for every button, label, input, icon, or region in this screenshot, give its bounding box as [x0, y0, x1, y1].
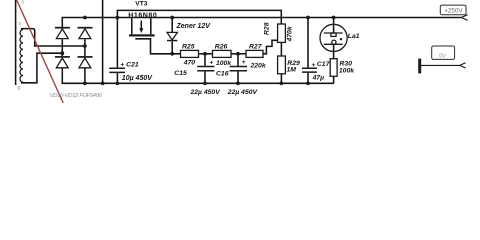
svg-text:+: + — [242, 59, 246, 66]
svg-text:R25: R25 — [182, 44, 195, 51]
svg-text:+ C21: + C21 — [120, 62, 139, 69]
svg-text:R27: R27 — [249, 44, 263, 51]
svg-text:470: 470 — [183, 59, 196, 66]
svg-text:Zener 12V: Zener 12V — [176, 23, 212, 30]
svg-text:C17: C17 — [317, 61, 331, 68]
svg-text:220k: 220k — [250, 63, 267, 70]
svg-text:VT3: VT3 — [135, 1, 147, 8]
svg-text:C16: C16 — [216, 70, 229, 77]
svg-text:100k: 100k — [339, 67, 355, 74]
svg-text:0V: 0V — [439, 54, 446, 60]
svg-text:22µ 450V: 22µ 450V — [190, 89, 222, 96]
svg-text:47µ: 47µ — [312, 74, 325, 81]
svg-text:R26: R26 — [215, 44, 228, 51]
svg-text:C15: C15 — [174, 70, 187, 77]
svg-text:10µ 450V: 10µ 450V — [122, 75, 153, 82]
svg-text:100k: 100k — [216, 60, 232, 67]
svg-text:+: + — [209, 60, 213, 67]
svg-text:La1: La1 — [348, 33, 360, 40]
svg-text:+250V: +250V — [444, 8, 463, 15]
svg-text:1M: 1M — [287, 66, 297, 73]
svg-text:H16N80: H16N80 — [128, 13, 157, 20]
svg-text:VD10-VD12 FUF5406: VD10-VD12 FUF5406 — [50, 93, 103, 99]
svg-text:9: 9 — [17, 86, 20, 92]
svg-text:470k: 470k — [287, 25, 294, 42]
svg-text:22µ 450V: 22µ 450V — [227, 89, 259, 96]
svg-text:R28: R28 — [264, 22, 271, 35]
svg-text:R30: R30 — [340, 60, 353, 67]
svg-text:+: + — [311, 62, 315, 69]
